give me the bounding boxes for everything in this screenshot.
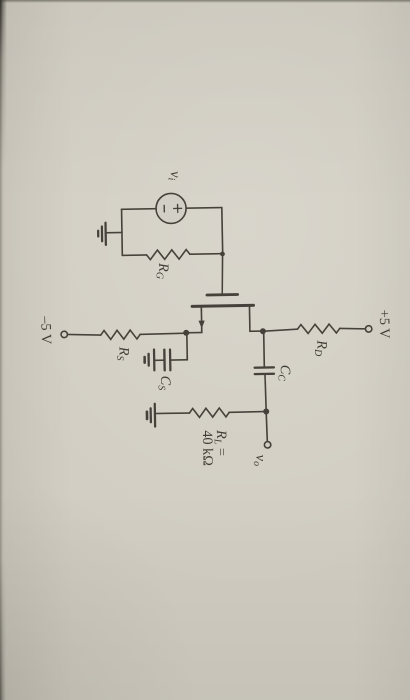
ground (gate loop)	[98, 222, 122, 245]
page top edge shadow	[0, 0, 410, 3]
wire: output node to vo terminal	[266, 411, 267, 441]
wire: RL to ground	[169, 412, 190, 414]
wire: gate loop bottom rail	[121, 209, 124, 255]
wire: gate loop top rail	[221, 208, 224, 254]
svg-text:RG: RG	[153, 262, 171, 279]
label RG	[153, 262, 171, 279]
terminal: +5V open circle	[365, 326, 372, 333]
wire: drain node to CC	[263, 331, 266, 367]
terminal: vo open circle	[264, 442, 271, 449]
svg-text:vi: vi	[165, 171, 183, 181]
MOSFET Q1 drain lead	[249, 305, 262, 331]
resistor RS	[101, 330, 141, 340]
wire: output node to RL	[229, 411, 266, 414]
label CS	[155, 376, 173, 391]
svg-text:RS: RS	[114, 346, 132, 361]
capacitor CC	[255, 367, 274, 374]
svg-text:+5 V: +5 V	[376, 310, 393, 340]
svg-text:RD: RD	[312, 339, 330, 357]
svg-text:CC: CC	[275, 365, 293, 382]
page left edge shadow	[0, 0, 5, 700]
svg-text:40 kΩ: 40 kΩ	[199, 430, 216, 466]
resistor RD	[297, 324, 339, 334]
capacitor CS	[164, 350, 170, 371]
wire: RG bottom lead	[122, 254, 146, 256]
label RL = 40 kOhm	[199, 429, 230, 466]
wire: RS to -5V terminal	[67, 334, 100, 336]
label v_i	[165, 171, 183, 181]
label -5 V	[37, 315, 54, 345]
wire: drain node to RD	[263, 329, 298, 331]
wire: source bottom lead	[122, 208, 156, 211]
resistor RL	[189, 408, 229, 418]
svg-text:–5 V: –5 V	[37, 315, 54, 345]
MOSFET Q1 channel bar	[192, 305, 253, 306]
label vo	[251, 454, 269, 466]
label RD	[312, 339, 330, 357]
resistor RG	[147, 250, 190, 260]
wire: RD to +5V terminal	[340, 328, 366, 329]
ground (CS)	[145, 349, 165, 370]
svg-text:vo: vo	[251, 454, 269, 466]
wire: RG top lead	[190, 253, 223, 256]
node: output junction dot	[263, 408, 269, 414]
wire: gate loop left vertical (top half, source top lead)	[186, 207, 222, 210]
node: drain junction dot	[260, 328, 266, 334]
wire: source node to RS	[140, 333, 186, 334]
wire: gate lead to MOSFET	[222, 254, 224, 295]
svg-text:CS: CS	[155, 376, 173, 391]
terminal: -5V open circle	[61, 331, 68, 338]
label +5 V	[376, 310, 393, 340]
ground (RL)	[147, 404, 169, 427]
voltage source v_i	[156, 193, 187, 224]
wire: source node to CS	[170, 333, 188, 360]
MOSFET Q1 source lead with arrow	[186, 306, 205, 333]
wire: CC to output node	[265, 374, 266, 412]
label CC	[275, 365, 293, 382]
node: gate junction dot	[220, 252, 225, 257]
label RS	[114, 346, 132, 361]
node: source junction dot	[183, 330, 189, 336]
MOSFET Q1 gate bar	[207, 293, 238, 296]
